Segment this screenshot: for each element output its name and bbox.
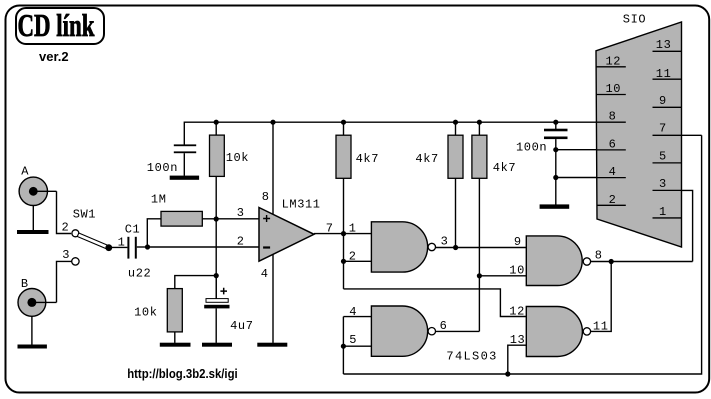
svg-text:10: 10 <box>509 263 525 277</box>
svg-text:1: 1 <box>349 221 357 235</box>
svg-text:1: 1 <box>659 205 667 219</box>
junction dots gate A inputs <box>341 231 346 236</box>
svg-text:4: 4 <box>349 305 357 319</box>
capacitor 100n right <box>544 122 568 204</box>
junction node 10 <box>477 273 482 278</box>
wire gate D output <box>591 262 612 332</box>
wire +5V rail <box>184 122 596 144</box>
resistor 10k top <box>210 122 225 219</box>
wire gate B output up to node <box>436 330 480 332</box>
nand gate U2C <box>526 236 590 286</box>
svg-text:u22: u22 <box>128 267 151 281</box>
wire A to switch pin2 <box>57 191 72 233</box>
svg-text:1: 1 <box>118 235 126 249</box>
svg-text:4: 4 <box>609 165 617 179</box>
nand gate U2D <box>526 307 590 357</box>
wire pin6 tap <box>556 149 597 151</box>
svg-text:A: A <box>21 164 29 178</box>
wire node 10 horizontal <box>479 275 526 277</box>
ground under 4u7 <box>202 343 232 347</box>
SIO pin numbers left <box>606 54 622 207</box>
wire gate A output <box>436 247 527 249</box>
svg-text:LM311: LM311 <box>282 197 321 211</box>
svg-text:10k: 10k <box>226 151 249 165</box>
ground under B <box>18 316 47 348</box>
svg-text:11: 11 <box>656 67 672 81</box>
junction C1/1M <box>145 244 150 249</box>
wire gate D pin13 <box>508 345 527 374</box>
wire gate A inputs <box>344 234 372 289</box>
svg-text:7: 7 <box>659 122 667 136</box>
svg-text:2: 2 <box>62 221 70 235</box>
op-amp U1 LM311 <box>259 122 314 343</box>
svg-text:2: 2 <box>349 250 357 264</box>
svg-text:9: 9 <box>514 235 522 249</box>
svg-text:9: 9 <box>659 94 667 108</box>
svg-text:2: 2 <box>609 193 617 207</box>
label + <box>220 288 227 295</box>
svg-text:2: 2 <box>237 235 245 249</box>
svg-text:8: 8 <box>595 248 603 262</box>
svg-text:SIO: SIO <box>623 13 646 27</box>
nand gate U2B <box>371 306 435 356</box>
wire gate D pin12 routing <box>344 289 527 317</box>
ground under 100n right <box>540 204 570 208</box>
connector A <box>19 177 56 205</box>
junction pin13 <box>505 371 510 376</box>
wire pin3 to outputs <box>682 190 693 261</box>
svg-text:3: 3 <box>441 235 449 249</box>
SIO pin numbers right <box>656 38 672 219</box>
svg-text:3: 3 <box>659 177 667 191</box>
junction dots on rail <box>214 120 559 125</box>
logo box CD link <box>16 8 104 44</box>
svg-text:4k7: 4k7 <box>415 152 438 166</box>
svg-text:1M: 1M <box>151 193 167 207</box>
wire output pin7 <box>314 233 344 235</box>
svg-text:12: 12 <box>606 54 622 68</box>
junction outputs 8 11 <box>609 259 614 264</box>
svg-text:http://blog.3b2.sk/igi: http://blog.3b2.sk/igi <box>127 367 238 381</box>
junction gate B input <box>341 344 346 349</box>
svg-text:8: 8 <box>262 190 270 204</box>
svg-text:4: 4 <box>261 267 269 281</box>
svg-text:13: 13 <box>656 38 672 52</box>
svg-text:3: 3 <box>237 206 245 220</box>
svg-text:100n: 100n <box>147 161 178 175</box>
svg-text:13: 13 <box>510 333 526 347</box>
nand gate U2A <box>371 222 435 272</box>
svg-text:4k7: 4k7 <box>493 161 516 175</box>
svg-text:CD línk: CD línk <box>18 7 95 43</box>
svg-text:12: 12 <box>509 305 525 319</box>
svg-text:B: B <box>21 277 29 291</box>
svg-text:ver.2: ver.2 <box>39 49 69 64</box>
wire B to switch pin3 <box>57 261 72 302</box>
SIO pin lines left column 12 10 8 6 4 2 <box>596 67 626 206</box>
junction pin3 node dots <box>214 216 219 221</box>
svg-text:10: 10 <box>606 82 622 96</box>
connector SIO <box>596 22 682 247</box>
resistor R 4k7 no2 <box>448 122 463 247</box>
wire node pin3 vertical <box>215 219 217 299</box>
wire gate C output <box>591 261 693 263</box>
resistor R 4k7 no1 <box>336 122 351 233</box>
capacitor C 100n left <box>174 144 196 175</box>
capacitor 4u7 electrolytic <box>204 276 229 343</box>
svg-text:5: 5 <box>349 333 357 347</box>
ground under 10k <box>160 343 191 347</box>
switch SW1 <box>72 230 113 265</box>
svg-text:10k: 10k <box>134 305 157 319</box>
svg-text:5: 5 <box>659 149 667 163</box>
svg-text:4k7: 4k7 <box>356 152 379 166</box>
wire pin7 to bottom <box>682 134 702 136</box>
junction taps <box>553 147 558 152</box>
ground under A <box>17 206 49 235</box>
svg-text:SW1: SW1 <box>73 207 96 221</box>
resistor 1M <box>147 211 259 247</box>
svg-text:4u7: 4u7 <box>230 319 253 333</box>
svg-text:6: 6 <box>609 137 617 151</box>
wire pin4 tap <box>556 177 597 179</box>
SIO pin lines right column 13 11 9 7 5 3 1 <box>653 51 682 218</box>
svg-text:3: 3 <box>62 248 70 262</box>
resistor R 4k7 no3 <box>472 122 487 331</box>
svg-text:8: 8 <box>609 110 617 124</box>
wire bottom long <box>343 135 701 374</box>
svg-text:100n: 100n <box>516 140 547 154</box>
ground <box>170 176 199 180</box>
wire pin2 horizontal <box>148 246 260 248</box>
resistor 10k bottom <box>167 276 216 343</box>
capacitor C1 <box>109 237 148 259</box>
wire gate B inputs <box>343 317 371 374</box>
junction gate A out <box>453 245 458 250</box>
svg-text:74LS03: 74LS03 <box>446 350 497 364</box>
svg-text:C1: C1 <box>125 223 141 237</box>
connector B <box>18 289 57 317</box>
ground under pin4 <box>257 343 287 347</box>
